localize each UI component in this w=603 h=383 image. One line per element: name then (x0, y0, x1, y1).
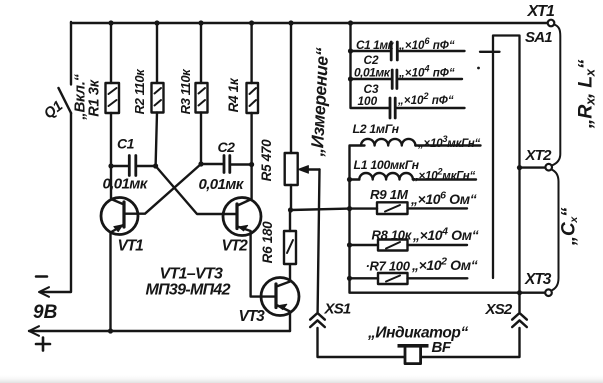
svg-text:„×104 Ом“: „×104 Ом“ (412, 226, 479, 244)
svg-text:C1 1мк: C1 1мк (356, 38, 395, 52)
svg-text:XT2: XT2 (525, 147, 553, 164)
svg-text:L1 100мкГн: L1 100мкГн (354, 158, 420, 172)
svg-text:VT1–VT3: VT1–VT3 (160, 266, 223, 283)
svg-text:„×106 Ом“: „×106 Ом“ (410, 190, 477, 208)
svg-text:„×103мкГн“: „×103мкГн“ (417, 134, 481, 150)
svg-text:„Индикатор“: „Индикатор“ (367, 325, 468, 342)
svg-text:„×102 пФ“: „×102 пФ“ (397, 91, 454, 107)
svg-text:C1: C1 (117, 136, 135, 152)
svg-text:„×104 пФ“: „×104 пФ“ (398, 64, 455, 80)
svg-text:Q1: Q1 (41, 98, 66, 122)
svg-text:R5 470: R5 470 (259, 139, 274, 182)
svg-text:„×106 пФ“: „×106 пФ“ (398, 36, 455, 52)
svg-text:·R7 100: ·R7 100 (366, 259, 411, 274)
svg-text:R6 180: R6 180 (260, 221, 275, 264)
svg-text:VT1: VT1 (118, 238, 144, 255)
svg-text:R4 1к: R4 1к (226, 77, 241, 112)
svg-text:„×102мкГн“: „×102мкГн“ (412, 167, 476, 183)
svg-text:0,01мк: 0,01мк (354, 66, 391, 80)
svg-text:XS1: XS1 (324, 301, 351, 318)
svg-text:XT3: XT3 (524, 271, 552, 288)
svg-text:R1 3к: R1 3к (87, 79, 103, 116)
svg-text:C2: C2 (218, 139, 236, 155)
svg-text:VT3: VT3 (239, 308, 266, 325)
svg-text:XS2: XS2 (485, 301, 513, 318)
svg-text:R2 110к: R2 110к (132, 68, 147, 115)
svg-text:„Rх, Lх“: „Rх, Lх“ (575, 59, 598, 129)
svg-text:„Измерение“: „Измерение“ (307, 47, 333, 158)
svg-text:VT2: VT2 (222, 238, 249, 255)
svg-text:XT1: XT1 (527, 3, 555, 20)
svg-text:100: 100 (358, 94, 378, 108)
svg-text:L2 1мГн: L2 1мГн (353, 122, 400, 136)
svg-text:R8 10к: R8 10к (372, 228, 413, 243)
svg-text:0,01мк: 0,01мк (103, 176, 149, 193)
svg-text:9В: 9В (33, 302, 58, 323)
svg-text:„Сх“: „Сх“ (559, 207, 581, 246)
svg-text:МП39-МП42: МП39-МП42 (146, 282, 231, 299)
svg-text:BF: BF (432, 339, 452, 356)
svg-text:R9 1М: R9 1М (370, 187, 409, 202)
svg-text:0,01мк: 0,01мк (199, 176, 245, 193)
svg-text:„×102 Ом“: „×102 Ом“ (411, 256, 478, 274)
svg-text:R3 110к: R3 110к (178, 68, 193, 115)
svg-text:SA1: SA1 (525, 29, 552, 46)
